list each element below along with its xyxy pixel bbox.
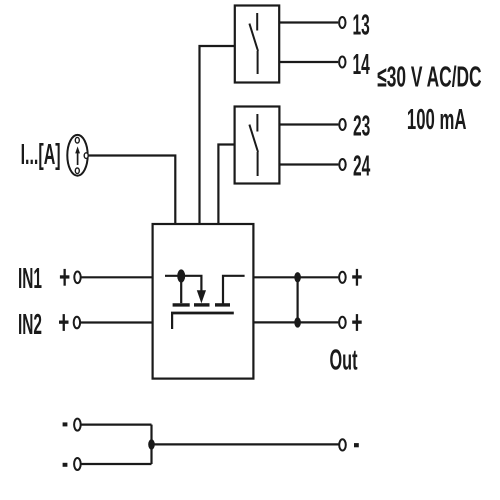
relay contact K1 switch symbol xyxy=(249,13,258,74)
dial tick circle top xyxy=(75,137,79,143)
dial arrow shaft xyxy=(77,152,79,166)
svg-text:Out: Out xyxy=(330,345,358,377)
wire minus bus to right terminal xyxy=(152,443,339,445)
MOSFET channel bar middle xyxy=(194,303,210,306)
out terminal + circle top xyxy=(339,272,346,283)
MOSFET Q1 inside fuse box xyxy=(165,269,245,329)
junction dot minus bus xyxy=(148,439,155,449)
wire minus terminal 1 xyxy=(81,424,152,426)
plus sign out top xyxy=(352,269,362,286)
junction dot out top xyxy=(294,272,301,282)
dial arrow head xyxy=(75,146,80,153)
wire fuse box to out terminal 2 xyxy=(253,321,338,323)
MOSFET channel bar right xyxy=(215,303,230,306)
svg-text:13: 13 xyxy=(353,10,370,42)
terminal 23 circle xyxy=(339,119,345,130)
MOSFET source top wire with corner xyxy=(165,276,201,291)
svg-text:IN2: IN2 xyxy=(18,309,42,341)
out terminal + circle bottom xyxy=(339,317,346,328)
junction dot out bottom xyxy=(294,317,301,327)
wire minus terminal 2 xyxy=(81,463,152,465)
MOSFET gate lead xyxy=(171,313,173,329)
wire fuse box to out terminal 1 xyxy=(253,276,338,278)
current setting dial body xyxy=(67,135,87,176)
svg-text:I...[A]: I...[A] xyxy=(21,139,61,171)
minus sign terminal 2 xyxy=(63,463,68,467)
wire out bridge vertical xyxy=(297,277,299,322)
MOSFET channel bar left xyxy=(173,303,190,306)
svg-text:IN1: IN1 xyxy=(18,263,42,295)
dial tick circle bottom xyxy=(75,168,79,174)
wire K2 to terminal 24 xyxy=(279,163,338,165)
MOSFET junction dot xyxy=(177,269,185,282)
wire IN2 to fuse box xyxy=(81,321,153,323)
minus right terminal circle xyxy=(339,439,346,450)
electronic fuse box U1 xyxy=(153,224,254,379)
MOSFET source lead xyxy=(180,276,182,303)
dial tick circle right xyxy=(84,153,88,159)
wire minus vertical join xyxy=(150,425,152,464)
minus terminal 2 circle xyxy=(74,458,81,470)
svg-text:23: 23 xyxy=(353,110,370,142)
terminal 13 circle xyxy=(339,17,345,28)
minus terminal 1 circle xyxy=(74,419,81,431)
wire K2 to terminal 23 xyxy=(279,123,338,125)
svg-text:≤30 V AC/DC: ≤30 V AC/DC xyxy=(377,62,481,94)
wire K1 to terminal 14 xyxy=(279,61,338,63)
terminal 24 circle xyxy=(339,159,345,170)
MOSFET gate bar xyxy=(171,312,234,315)
terminal IN2 circle xyxy=(74,317,80,329)
plus sign IN2 xyxy=(59,314,69,331)
terminal 14 circle xyxy=(339,57,345,68)
svg-text:100 mA: 100 mA xyxy=(407,104,467,136)
svg-text:14: 14 xyxy=(353,49,370,81)
minus sign terminal 1 xyxy=(63,422,68,426)
terminal IN1 circle xyxy=(74,272,80,284)
wire K1 to terminal 13 xyxy=(279,21,338,23)
plus sign out bottom xyxy=(352,314,362,331)
plus sign IN1 xyxy=(60,269,70,286)
wire IN1 to fuse box xyxy=(81,276,152,278)
relay contact K2 switch symbol xyxy=(249,114,258,176)
minus sign right terminal xyxy=(354,443,359,447)
svg-text:24: 24 xyxy=(353,150,370,182)
MOSFET drain lead with corner xyxy=(223,276,245,305)
relay contact K1 box xyxy=(235,6,279,83)
wire from current dial to fuse box top (node at x=175) xyxy=(89,156,176,225)
relay contact K2 box xyxy=(235,107,280,184)
MOSFET arrow xyxy=(197,290,206,303)
wire fuse box top to contact K2 left pin xyxy=(218,145,234,225)
wire fuse box top to contact K1 left pin xyxy=(200,46,235,224)
